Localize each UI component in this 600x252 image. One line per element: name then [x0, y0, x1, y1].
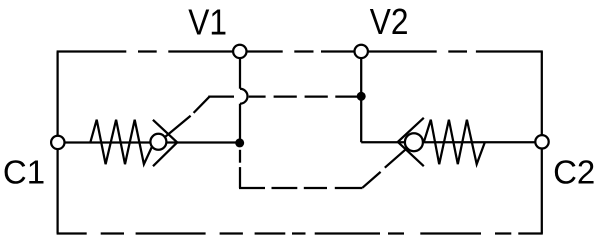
envelope bottom border dash 6: [292, 232, 306, 234]
poppet ball right check valve: [405, 133, 423, 151]
pilot line right vertical dash 2: [239, 167, 241, 188]
spring right check valve: [424, 120, 485, 165]
port V1: [233, 45, 246, 58]
poppet ball left check valve: [150, 134, 166, 150]
seat left check valve: [153, 120, 177, 166]
pilot line left horizontal dash 5: [335, 95, 358, 97]
spring left check valve: [90, 120, 154, 165]
pilot line right diagonal seg 2: [385, 142, 414, 168]
port V2: [355, 45, 368, 58]
svg-text:V1: V1: [188, 2, 227, 42]
envelope bottom border dash 8: [388, 232, 404, 234]
envelope bottom border dash 4: [220, 232, 243, 234]
pilot line left horizontal dash 1: [208, 95, 234, 97]
port C2: [535, 135, 548, 148]
envelope bottom border dash 2: [101, 232, 124, 234]
envelope top border dash 6: [448, 50, 467, 52]
pilot line right vertical dash 1: [239, 150, 241, 163]
pilot line left diagonal seg 1: [158, 116, 190, 143]
envelope bottom border dash 3: [136, 232, 206, 234]
junction node A: [235, 138, 244, 147]
junction node B: [357, 92, 366, 101]
envelope top border dash 4: [294, 50, 313, 52]
wire hop to node A: [239, 104, 241, 143]
pilot line left horizontal dash 4: [305, 95, 328, 97]
envelope top border dash 7: [476, 50, 543, 52]
envelope bottom border dash 9: [420, 232, 481, 234]
wire V2 corner to C2: [361, 141, 542, 143]
envelope top border dash 2: [138, 50, 157, 52]
envelope bottom border dash 5: [255, 232, 286, 234]
envelope bottom border dash 11: [518, 232, 543, 234]
pilot line right horizontal dash 3: [304, 187, 327, 189]
svg-text:C2: C2: [553, 153, 595, 190]
svg-text:C1: C1: [3, 153, 45, 190]
wire V1 stub: [239, 51, 241, 88]
envelope bottom border dash 7: [315, 232, 380, 234]
pilot line right horizontal dash 1: [239, 187, 265, 189]
pilot line right diagonal seg 1: [363, 172, 381, 188]
wire crossover hop: [240, 89, 248, 104]
pilot line left horizontal dash 2: [249, 95, 266, 97]
seat right check valve: [398, 118, 424, 166]
envelope top border dash 3: [168, 50, 282, 52]
wire C1 to node A: [58, 141, 240, 143]
envelope left border: [56, 52, 58, 234]
pilot line left diagonal seg 2: [194, 97, 210, 113]
svg-text:V2: V2: [370, 2, 409, 42]
pilot line right horizontal dash 2: [272, 187, 298, 189]
envelope bottom border dash 10: [495, 232, 511, 234]
envelope top border dash 5: [321, 50, 437, 52]
envelope bottom border dash 1: [57, 232, 87, 234]
envelope right border: [541, 52, 543, 234]
wire V2 vertical: [360, 51, 362, 142]
pilot line left horizontal dash 3: [274, 95, 297, 97]
pilot line right horizontal dash 4: [335, 187, 363, 189]
port C1: [51, 136, 64, 149]
envelope top border dash 1: [57, 50, 127, 52]
